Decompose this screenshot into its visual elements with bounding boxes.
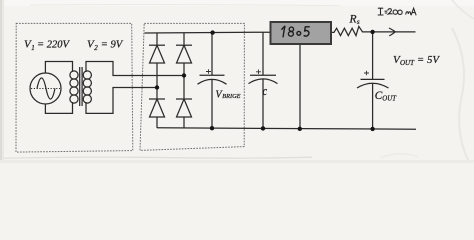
svg-text:= 220V: = 220V bbox=[37, 40, 70, 51]
svg-text:1: 1 bbox=[31, 44, 35, 52]
svg-text:= 9V: = 9V bbox=[101, 40, 124, 51]
svg-text:OUT: OUT bbox=[400, 59, 415, 67]
svg-text:= 5V: = 5V bbox=[417, 55, 441, 66]
svg-text:R: R bbox=[349, 13, 357, 25]
svg-text:OUT: OUT bbox=[382, 95, 397, 102]
svg-text:c: c bbox=[263, 84, 268, 98]
svg-text:s: s bbox=[357, 18, 360, 26]
svg-text:BRIGE: BRIGE bbox=[222, 93, 240, 100]
svg-text:2: 2 bbox=[94, 44, 98, 52]
